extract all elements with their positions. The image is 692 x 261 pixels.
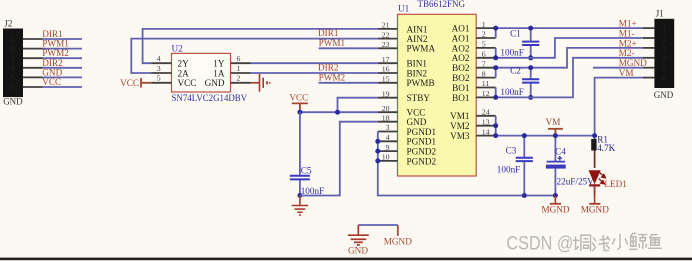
svg-text:AO1: AO1 <box>452 33 470 43</box>
capacitor C4 polarized with leads <box>546 136 566 196</box>
svg-text:13: 13 <box>482 117 490 126</box>
svg-text:12: 12 <box>482 89 490 98</box>
svg-text:TB6612FNG: TB6612FNG <box>418 0 466 9</box>
LED LED1 <box>589 170 606 195</box>
designator C1 <box>510 28 521 38</box>
junction STBY riser on VCC wire <box>335 110 340 115</box>
U1 right pin stubs <box>476 28 496 136</box>
svg-text:AIN2: AIN2 <box>407 34 428 44</box>
svg-text:22: 22 <box>382 30 390 39</box>
svg-text:PGND2: PGND2 <box>407 156 437 166</box>
net label VM (J1) <box>619 68 634 78</box>
svg-text:AO2: AO2 <box>452 43 470 53</box>
junction PGND pin 10 <box>375 158 380 163</box>
wire net AIN1: U2 pin4 2Y to U1 pin 21 <box>143 29 378 63</box>
designator C5 <box>301 166 312 176</box>
svg-text:2: 2 <box>237 74 241 83</box>
svg-text:1A: 1A <box>213 68 225 78</box>
watermark hanzi 4 (jing) <box>630 234 647 250</box>
net label DIR1 (U1 pin 22) <box>318 28 339 38</box>
wire net VCC: to U1 pin 20 <box>300 111 378 113</box>
designator R1 <box>597 135 608 145</box>
svg-text:M2-: M2- <box>619 48 635 58</box>
svg-text:GND: GND <box>205 78 225 88</box>
svg-text:GND: GND <box>42 67 62 77</box>
svg-text:MGND: MGND <box>581 205 609 215</box>
svg-text:VM2: VM2 <box>450 121 470 131</box>
svg-text:2A: 2A <box>178 68 190 78</box>
junction C4 top / VM stem <box>553 133 558 138</box>
value label 4.7K (R1) <box>597 143 615 153</box>
net label MGND (J1) <box>619 58 647 68</box>
connector J2 pin numbers <box>11 34 16 92</box>
value label 100nF (C2) <box>500 87 524 97</box>
svg-text:3: 3 <box>11 53 15 63</box>
svg-text:PWM2: PWM2 <box>319 72 346 82</box>
power port MGND bottom center <box>384 225 412 247</box>
connector J1 body <box>654 8 674 100</box>
U1 right pin numbers <box>482 20 490 137</box>
svg-text:PWM2: PWM2 <box>42 48 69 58</box>
svg-text:6: 6 <box>11 82 15 92</box>
designator C3 <box>506 145 517 155</box>
svg-text:BO2: BO2 <box>452 63 470 73</box>
net label PWM1 (J2) <box>42 39 69 49</box>
value label SN74LVC2G14DBV <box>172 93 248 103</box>
svg-text:PWMA: PWMA <box>407 44 436 54</box>
svg-text:2: 2 <box>662 33 666 43</box>
svg-text:VCC: VCC <box>42 77 61 87</box>
svg-text:M1+: M1+ <box>619 19 637 29</box>
connector J1 pin stubs <box>643 28 655 78</box>
op-amp U2 body SN74LVC2G14DBV <box>172 53 231 92</box>
svg-text:M2+: M2+ <box>619 38 637 48</box>
power port VCC (middle) <box>289 93 308 113</box>
svg-text:PWMB: PWMB <box>407 78 435 88</box>
junction at C5 bottom node <box>297 193 302 198</box>
capacitor C3 with leads <box>516 136 533 196</box>
power port VM <box>546 117 563 135</box>
svg-text:2Y: 2Y <box>178 59 190 69</box>
wire net M2+: U1 pins 7,8 to J1 pin 3 <box>496 48 643 78</box>
svg-text:1: 1 <box>237 64 241 73</box>
svg-text:VCC: VCC <box>120 78 139 88</box>
junction PGND pin 4 <box>375 139 380 144</box>
svg-text:100nF: 100nF <box>497 164 521 174</box>
svg-text:3: 3 <box>157 64 161 73</box>
svg-text:5: 5 <box>11 73 15 83</box>
svg-text:5: 5 <box>482 40 486 49</box>
svg-text:BO1: BO1 <box>452 93 470 103</box>
svg-text:C1: C1 <box>510 28 521 38</box>
ground GND bottom center <box>348 225 369 256</box>
bottom border line <box>0 258 692 261</box>
svg-text:C4: C4 <box>555 147 566 157</box>
wire GND to MGND tie <box>358 224 398 226</box>
svg-text:VCC: VCC <box>407 108 426 118</box>
net label DIR1 (J2) <box>42 29 63 39</box>
designator LED1 <box>604 179 627 189</box>
value label 100nF (C3) <box>497 164 521 174</box>
wire net BIN1: U2 pin6 1Y to U1 pin 17 <box>251 62 378 64</box>
capacitor C5 with leads <box>290 112 310 195</box>
svg-text:STBY: STBY <box>407 93 431 103</box>
watermark hanzi 2 (qian) <box>593 236 610 251</box>
svg-text:2: 2 <box>11 44 15 54</box>
wire J2 pin 3 net PWM2 <box>43 57 83 59</box>
svg-text:VM: VM <box>546 117 561 127</box>
U1 left pin numbers <box>382 21 390 162</box>
svg-text:C2: C2 <box>510 66 521 76</box>
junction C2 bottom <box>528 95 533 100</box>
net label DIR2 (J2) <box>42 58 63 68</box>
svg-text:100nF: 100nF <box>500 87 524 97</box>
svg-text:BO2: BO2 <box>452 73 470 83</box>
svg-text:GND: GND <box>407 117 427 127</box>
svg-text:23: 23 <box>382 40 390 49</box>
svg-text:11: 11 <box>482 79 490 88</box>
svg-text:DIR1: DIR1 <box>318 28 339 38</box>
svg-text:M1-: M1- <box>619 28 635 38</box>
value label 100nF (C1) <box>500 47 524 57</box>
svg-text:DIR1: DIR1 <box>42 29 63 39</box>
svg-text:9: 9 <box>386 143 390 152</box>
designator C4 <box>555 147 566 157</box>
wire J2 pin 5 net GND <box>43 76 83 78</box>
U1 left pin names <box>407 24 437 166</box>
wire J2 pin 2 net PWM1 <box>43 48 83 50</box>
svg-text:1Y: 1Y <box>213 59 225 69</box>
junction M1+ at pin 1 <box>493 26 498 31</box>
svg-text:19: 19 <box>382 89 390 98</box>
net label M2+ (J1) <box>619 38 637 48</box>
svg-text:20: 20 <box>382 104 390 113</box>
value label 22uF/25V (C4) <box>557 176 595 186</box>
svg-text:DIR2: DIR2 <box>42 58 63 68</box>
svg-text:MGND: MGND <box>619 58 647 68</box>
svg-text:SN74LVC2G14DBV: SN74LVC2G14DBV <box>172 93 248 103</box>
svg-text:21: 21 <box>382 21 390 30</box>
svg-text:6: 6 <box>482 50 486 59</box>
power port MGND below C4 <box>541 196 569 215</box>
svg-text:24: 24 <box>482 108 490 117</box>
svg-text:16: 16 <box>382 65 390 74</box>
wire net DIR2: U2 pin1 1A to U1 pin 16 <box>251 72 378 74</box>
svg-text:BO1: BO1 <box>452 83 470 93</box>
wire STBY vertical from VCC net <box>338 98 378 113</box>
connector J2 body <box>3 18 23 106</box>
net label DIR2 (U1 pin 16) <box>318 63 339 73</box>
svg-text:BIN2: BIN2 <box>407 68 428 78</box>
svg-text:1: 1 <box>482 20 486 29</box>
net label M1+ (J1) <box>619 19 637 29</box>
watermark hanzi 1 (ge) <box>574 235 591 250</box>
svg-text:CSDN @: CSDN @ <box>506 232 573 254</box>
wire net PWM2 to U1 pin 15 <box>319 82 378 84</box>
junction VM pin 13 <box>493 123 498 128</box>
svg-text:18: 18 <box>382 113 390 122</box>
wire net VM: U1 pins 24,13,14 bracket and bus <box>496 116 595 136</box>
designator U1 <box>398 4 410 14</box>
svg-text:AIN1: AIN1 <box>407 24 428 34</box>
junction C3 top <box>522 133 527 138</box>
svg-text:4: 4 <box>157 54 161 63</box>
svg-text:3: 3 <box>662 43 666 53</box>
svg-text:C5: C5 <box>301 166 312 176</box>
svg-text:17: 17 <box>382 55 390 64</box>
wire net GND: C5 node to U1 pin 18 <box>300 122 378 196</box>
junction C4 bottom <box>553 193 558 198</box>
ground GND below C5 <box>292 196 309 216</box>
svg-text:VM1: VM1 <box>450 111 470 121</box>
svg-text:3: 3 <box>386 123 390 132</box>
svg-text:15: 15 <box>382 75 390 84</box>
U2 right pin numbers 6 1 2 <box>237 54 241 83</box>
wire PGND bracket U1 pins 3,4,9,10 down to bus <box>378 132 556 196</box>
svg-text:MGND: MGND <box>541 205 569 215</box>
wire net M1-: U1 pins 5,6 to J1 pin 2 <box>496 38 643 58</box>
junction VM pin 14 <box>493 133 498 138</box>
wire J2 pin 6 net VCC <box>43 86 83 88</box>
U2 left pin stubs (pins 4,3,5) <box>152 63 172 83</box>
svg-text:100nF: 100nF <box>500 47 524 57</box>
power port VCC at U2 pin 5 <box>120 78 151 88</box>
net label GND (J2) <box>42 67 62 77</box>
svg-text:PGND1: PGND1 <box>407 137 437 147</box>
value label TB6612FNG <box>418 0 466 9</box>
svg-text:PWM1: PWM1 <box>42 39 69 49</box>
svg-text:PGND2: PGND2 <box>407 147 437 157</box>
svg-text:GND: GND <box>654 90 674 100</box>
net label PWM1 (U1 pin 23) <box>319 38 346 48</box>
ground at U2 pin 2 (earth symbol rotated) <box>251 74 271 92</box>
junction M2+ at pin 7 <box>493 65 498 70</box>
resistor R1 <box>591 136 596 168</box>
wire net M1+: U1 pins 1,2 to J1 pin 1 <box>496 28 643 38</box>
svg-text:J1: J1 <box>656 8 664 18</box>
svg-text:VM: VM <box>619 68 634 78</box>
wire net VM: J1 pin 6 down to VM node <box>595 78 643 136</box>
junction M1- at pin 6 <box>493 55 498 60</box>
svg-text:4: 4 <box>386 133 390 142</box>
U2 pin names <box>178 59 225 89</box>
value label 100nF (C5) <box>301 186 325 196</box>
svg-text:BIN1: BIN1 <box>407 59 428 69</box>
connector J1 pin numbers <box>662 23 667 83</box>
svg-text:PGND1: PGND1 <box>407 127 437 137</box>
svg-text:VCC: VCC <box>289 93 308 103</box>
svg-text:2: 2 <box>482 30 486 39</box>
svg-text:14: 14 <box>482 127 490 136</box>
net label M1- (J1) <box>619 28 635 38</box>
wire net MGND to J1 pin 5 <box>593 67 643 69</box>
connector J2 pin stubs <box>23 39 43 87</box>
svg-text:4: 4 <box>662 53 667 63</box>
wire net M2-: U1 pins 11,12 to J1 pin 4 <box>496 58 643 98</box>
svg-text:22uF/25V: 22uF/25V <box>557 176 595 186</box>
capacitor C2 with leads <box>522 68 539 98</box>
junction M2- at pin 12 <box>493 95 498 100</box>
svg-text:100nF: 100nF <box>301 186 325 196</box>
capacitor C1 with leads <box>522 28 539 58</box>
net label PWM2 (U1 pin 15) <box>319 72 346 82</box>
watermark CSDN text <box>506 232 573 254</box>
net label VCC (J2) <box>42 77 61 87</box>
svg-text:8: 8 <box>482 69 486 78</box>
U2 right pin stubs (pins 6,1,2) <box>231 63 251 83</box>
svg-text:6: 6 <box>237 54 241 63</box>
svg-text:J2: J2 <box>4 18 12 28</box>
svg-text:GND: GND <box>3 97 23 107</box>
junction C1 top <box>528 26 533 31</box>
svg-text:LED1: LED1 <box>604 179 627 189</box>
svg-text:VM3: VM3 <box>450 131 470 141</box>
svg-text:1: 1 <box>11 34 15 44</box>
svg-text:5: 5 <box>157 74 161 83</box>
svg-text:GND: GND <box>348 246 368 256</box>
svg-text:U1: U1 <box>398 4 410 14</box>
svg-text:C3: C3 <box>506 145 517 155</box>
net label PWM2 (J2) <box>42 48 69 58</box>
svg-text:1: 1 <box>662 23 666 33</box>
U1 left pin stubs <box>378 29 398 161</box>
svg-text:DIR2: DIR2 <box>318 63 339 73</box>
junction at VCC stem and pin 20 wire <box>297 110 302 115</box>
svg-text:10: 10 <box>382 153 390 162</box>
svg-text:AO1: AO1 <box>452 24 470 34</box>
net label M2- (J1) <box>619 48 635 58</box>
junction C1 bottom <box>528 55 533 60</box>
svg-text:VCC: VCC <box>178 78 197 88</box>
wire net DIR1: U2 pin3 2A to U1 pin 22 <box>131 39 377 73</box>
designator U2 <box>172 44 184 54</box>
svg-text:6: 6 <box>662 73 666 83</box>
wire J2 pin 1 net DIR1 <box>43 38 83 40</box>
wire net PWM1 to U1 pin 23 <box>319 47 378 49</box>
svg-text:AO2: AO2 <box>452 53 470 63</box>
svg-text:7: 7 <box>482 59 486 68</box>
junction C2 top <box>528 65 533 70</box>
U2 left pin numbers 4 3 5 <box>157 54 161 83</box>
watermark hanzi 5 (yu) <box>649 235 662 249</box>
junction R1 top / VM wire end <box>592 133 597 138</box>
wire J2 pin 4 net DIR2 <box>43 67 83 69</box>
designator C2 <box>510 66 521 76</box>
svg-text:U2: U2 <box>172 44 184 54</box>
svg-text:MGND: MGND <box>384 237 412 247</box>
watermark hanzi 3 (xiao) <box>613 235 628 250</box>
junction PGND pin 9 <box>375 149 380 154</box>
transistor-driver U1 body TB6612FNG <box>398 14 477 176</box>
U1 right pin names <box>450 24 470 142</box>
svg-text:4.7K: 4.7K <box>597 143 615 153</box>
svg-text:5: 5 <box>662 63 666 73</box>
svg-text:PWM1: PWM1 <box>319 38 346 48</box>
junction C3 bottom <box>522 193 527 198</box>
power port MGND below LED1 <box>581 186 609 215</box>
